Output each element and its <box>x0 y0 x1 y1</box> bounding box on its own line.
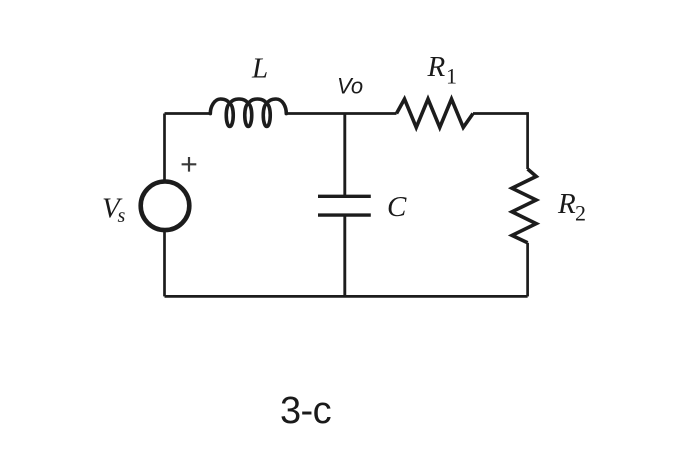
inductor L <box>210 99 286 127</box>
wire top-left horizontal (source top corner to inductor) <box>165 112 211 115</box>
svg-text:1: 1 <box>446 64 457 89</box>
capacitor C top plate <box>318 195 371 198</box>
svg-text:2: 2 <box>575 201 586 226</box>
wire R2 to bottom-right corner <box>526 243 529 297</box>
capacitor C bottom plate <box>318 213 371 216</box>
svg-text:s: s <box>118 205 126 227</box>
svg-text:Vo: Vo <box>337 74 363 99</box>
resistor R1 <box>397 99 474 127</box>
wire bottom rail <box>165 295 528 298</box>
svg-text:3-c: 3-c <box>280 390 331 432</box>
svg-text:L: L <box>251 53 268 85</box>
wire R1 to top-right corner down to R2 <box>473 114 528 170</box>
wire capacitor branch top (node Vo down to top plate) <box>343 114 346 197</box>
svg-text:R: R <box>427 51 446 83</box>
svg-text:C: C <box>387 191 407 223</box>
wire inductor to node Vo to R1 <box>286 112 396 115</box>
resistor R2 <box>512 169 536 243</box>
svg-text:R: R <box>557 188 576 220</box>
voltage source Vs circle <box>141 182 190 231</box>
wire source bottom (circle to bottom-left corner) <box>163 230 166 296</box>
wire capacitor branch bottom <box>343 215 346 296</box>
wire source top (corner down to circle) <box>163 114 166 183</box>
voltage source plus sign <box>182 157 197 172</box>
